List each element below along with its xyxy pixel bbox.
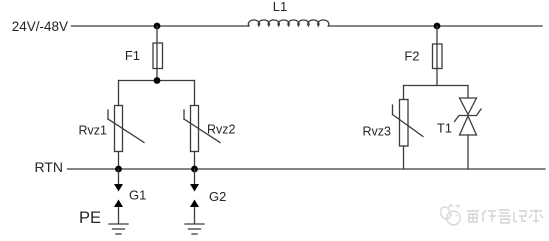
svg-text:F2: F2 bbox=[404, 49, 419, 64]
node PE label bbox=[79, 209, 101, 227]
wire top rail left segment bbox=[72, 25, 250, 27]
spark gap G1 bbox=[114, 169, 146, 224]
svg-text:Rvz3: Rvz3 bbox=[363, 125, 392, 139]
watermark logo bbox=[439, 205, 460, 225]
inductor L1 bbox=[248, 20, 329, 26]
TVS T1 bbox=[437, 86, 481, 170]
junction dot E (RTN / Rvz2) bbox=[191, 166, 198, 173]
svg-text:RTN: RTN bbox=[34, 159, 63, 175]
svg-text:L1: L1 bbox=[273, 0, 287, 14]
svg-text:F1: F1 bbox=[125, 48, 140, 63]
svg-text:G2: G2 bbox=[209, 189, 226, 204]
svg-text:PE: PE bbox=[79, 209, 101, 227]
junction dot C (F1 / varistor bar) bbox=[154, 77, 161, 84]
ground (G1, PE) bbox=[109, 224, 128, 234]
spark gap G2 bbox=[190, 169, 226, 224]
varistor Rvz3 bbox=[363, 86, 423, 170]
svg-text:T1: T1 bbox=[437, 121, 452, 136]
fuse F1 bbox=[153, 43, 163, 69]
label L1 bbox=[273, 0, 287, 14]
junction dot B (top rail / F2) bbox=[434, 23, 441, 30]
junction dot D (RTN / Rvz1) bbox=[115, 166, 122, 173]
fuse F2 bbox=[433, 44, 443, 69]
wire top rail right segment bbox=[328, 25, 542, 27]
wire F2 vertical drop bbox=[436, 26, 438, 86]
varistor Rvz2 bbox=[184, 81, 236, 170]
svg-text:Rvz2: Rvz2 bbox=[207, 123, 236, 137]
svg-text:Rvz1: Rvz1 bbox=[79, 124, 108, 138]
node 24V/-48V label bbox=[12, 19, 68, 34]
svg-text:24V/-48V: 24V/-48V bbox=[12, 19, 68, 34]
varistor Rvz1 bbox=[79, 81, 144, 170]
junction dot A (top rail / F1) bbox=[154, 23, 161, 30]
wire bar below F2 bbox=[404, 85, 469, 87]
svg-text:G1: G1 bbox=[129, 188, 146, 203]
ground (G2) bbox=[185, 224, 204, 234]
watermark text 硬件笔记本 bbox=[467, 209, 543, 223]
wire F1 vertical drop bbox=[156, 26, 158, 81]
node RTN label bbox=[34, 159, 63, 175]
wire RTN rail bbox=[68, 168, 546, 170]
wire bar below F1 bbox=[119, 80, 195, 82]
